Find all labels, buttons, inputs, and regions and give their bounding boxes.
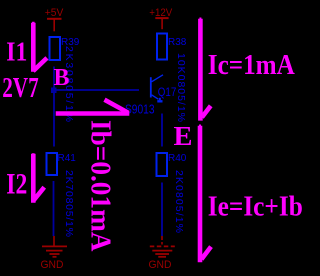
svg-text:S9013: S9013 — [125, 102, 155, 117]
svg-text:+12V: +12V — [149, 7, 173, 19]
svg-text:2V7: 2V7 — [2, 72, 39, 104]
svg-text:R41: R41 — [58, 153, 77, 164]
svg-text:GND: GND — [149, 259, 172, 271]
svg-text:R38: R38 — [168, 37, 187, 48]
svg-text:2K70805/1%: 2K70805/1% — [63, 170, 75, 237]
svg-text:GND: GND — [41, 259, 64, 271]
svg-text:2K0805/1%: 2K0805/1% — [173, 170, 185, 233]
svg-text:E: E — [174, 120, 193, 151]
svg-text:Ie=Ic+Ib: Ie=Ic+Ib — [208, 191, 303, 223]
svg-text:B: B — [54, 64, 70, 91]
svg-text:Ib=0.01mA: Ib=0.01mA — [85, 120, 117, 252]
svg-text:I2: I2 — [6, 169, 27, 201]
svg-text:Q17: Q17 — [158, 87, 177, 99]
svg-text:R40: R40 — [168, 153, 187, 164]
svg-text:Ic=1mA: Ic=1mA — [208, 49, 295, 81]
svg-text:10K0805/1%: 10K0805/1% — [175, 53, 187, 122]
svg-text:I1: I1 — [6, 36, 27, 67]
svg-text:+5V: +5V — [45, 7, 64, 19]
